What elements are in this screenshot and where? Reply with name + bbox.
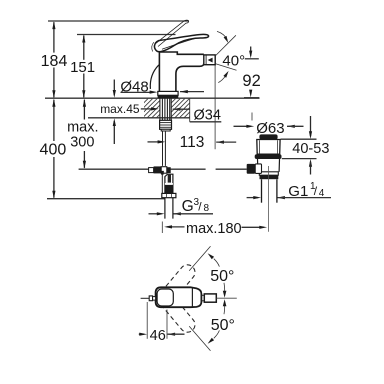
svg-text:G: G — [182, 198, 194, 215]
svg-text:184: 184 — [41, 53, 68, 70]
svg-text:50°: 50° — [211, 317, 235, 334]
svg-text:G1: G1 — [288, 183, 308, 200]
svg-text:Ø34: Ø34 — [194, 107, 221, 123]
svg-text:50°: 50° — [210, 268, 234, 285]
svg-text:300: 300 — [70, 135, 94, 151]
svg-text:4: 4 — [319, 188, 325, 199]
svg-text:92: 92 — [242, 72, 260, 90]
svg-text:40°: 40° — [222, 52, 245, 69]
svg-text:max.180: max.180 — [186, 221, 242, 237]
svg-text:max.45: max.45 — [100, 102, 140, 116]
svg-text:46: 46 — [150, 328, 166, 344]
svg-text:151: 151 — [70, 59, 95, 76]
svg-text:40-53: 40-53 — [292, 141, 329, 157]
svg-text:400: 400 — [40, 142, 67, 159]
svg-text:113: 113 — [180, 134, 205, 151]
svg-text:max.: max. — [67, 120, 98, 136]
svg-text:8: 8 — [204, 203, 210, 214]
